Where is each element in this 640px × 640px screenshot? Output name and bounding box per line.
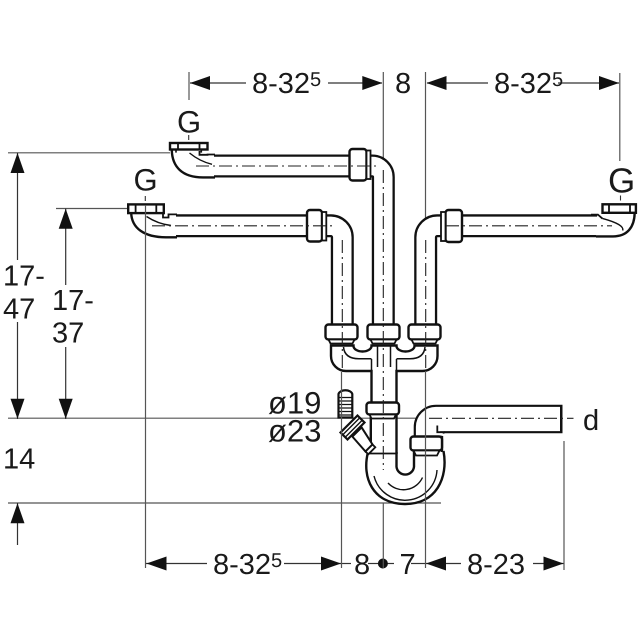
pipe P3 elbow at flange <box>591 211 635 236</box>
dishwasher connector: barbed hose fitting <box>339 390 353 417</box>
trap nut top (under manifold outlet) <box>367 403 400 419</box>
trap inlet tube (below central nut) <box>371 404 397 454</box>
manifold nut right <box>409 325 441 344</box>
trap inner U wall <box>397 452 415 475</box>
extension line middle tube top <box>382 72 384 166</box>
outlet elbow and horizontal outlet pipe <box>428 419 563 450</box>
extension line outlet pipe end <box>563 441 565 570</box>
nut on pipe P1 <box>350 149 371 181</box>
manifold (triple connector body) <box>331 346 438 405</box>
trap joint line left <box>367 453 398 455</box>
dishwasher connector: angled nut <box>341 416 365 440</box>
manifold nut left <box>326 325 358 344</box>
label G mid-left <box>135 169 155 191</box>
label o19 <box>269 392 320 414</box>
pipe P1 (upper-left inlet pipe) <box>192 166 383 330</box>
trap riser tube <box>414 436 442 454</box>
manifold nut middle <box>368 325 400 344</box>
dash-dot centerlines <box>152 166 612 470</box>
bottom dim arrows <box>147 557 167 571</box>
left dim line 17-37 <box>65 209 67 286</box>
nut on pipe P2 <box>307 210 326 242</box>
label d <box>584 409 597 430</box>
nut on pipe P3 <box>441 210 462 242</box>
top dim line 8-32.5 right <box>427 82 488 84</box>
dimension arrows <box>11 76 620 571</box>
flange G2 (lower-left wall connection) <box>128 204 164 213</box>
left dim line 17-47 <box>17 153 19 260</box>
dimension texts <box>4 72 633 574</box>
reference line outlet centerline level <box>8 417 430 419</box>
extension line flange2 center <box>145 205 147 568</box>
short centerline ticks below G labels <box>145 135 620 205</box>
label 8-32.5 top right <box>495 72 562 93</box>
pipe P2 (lower-left inlet pipe) <box>169 226 342 330</box>
outlet pipe socket step <box>437 431 444 435</box>
manifold inner channel lines <box>344 346 426 371</box>
bottom dim line segments <box>146 563 207 565</box>
top dim line 8-32.5 left <box>190 82 246 84</box>
bottom dim dot <box>378 559 388 569</box>
label o23 <box>269 420 320 442</box>
label 17-37 line1 <box>54 290 92 310</box>
dim 14 arrow <box>11 503 25 523</box>
label 14 <box>5 449 34 469</box>
pipe P1 elbow at flange <box>172 150 215 177</box>
extension line left tube center <box>341 372 343 568</box>
label G right <box>610 168 633 193</box>
extension line top-left flange center <box>188 72 190 100</box>
label 17-47 line1 <box>5 266 43 286</box>
label 17-47 line2 <box>4 299 34 319</box>
label 8 top middle <box>396 73 410 94</box>
left dim arrows 17-47 <box>11 153 25 173</box>
extension line right tube center <box>425 371 427 568</box>
reference line trap bottom level <box>8 502 441 504</box>
dim 14 arrow stem <box>17 503 19 545</box>
top dim arrows <box>190 76 210 90</box>
label 8-32.5 bottom <box>214 553 281 574</box>
extension lines drawn over artwork <box>146 205 426 568</box>
trap shading arcs <box>374 470 437 500</box>
label G top-left <box>179 111 199 133</box>
construction lines (behind artwork) <box>8 72 620 570</box>
label 8-32.5 top left <box>253 72 320 93</box>
extension line trap center <box>382 504 384 569</box>
flange G3 (right wall connection) <box>603 204 636 213</box>
trap U-bend pot <box>366 451 444 504</box>
pipe P2 elbow at flange <box>131 212 177 237</box>
reference line lower-left flange level <box>56 208 129 210</box>
extension line right tube top <box>425 72 427 219</box>
pipe P3 (right inlet pipe) <box>426 226 603 330</box>
dishwasher connector: tapered tube to trap <box>352 427 375 454</box>
label 8-23 bottom <box>468 554 524 575</box>
label 7 bottom <box>401 554 414 574</box>
flange G1 (upper-left wall connection) <box>170 143 208 153</box>
extension line right flange center <box>619 73 621 161</box>
reference line top-left flange level <box>8 152 170 154</box>
label 17-37 line2 <box>53 322 83 343</box>
label 8 bottom <box>355 554 369 575</box>
left dim arrows 17-37 <box>59 209 73 229</box>
dimension lines <box>18 83 620 564</box>
trap nut right (on riser) <box>411 437 443 456</box>
